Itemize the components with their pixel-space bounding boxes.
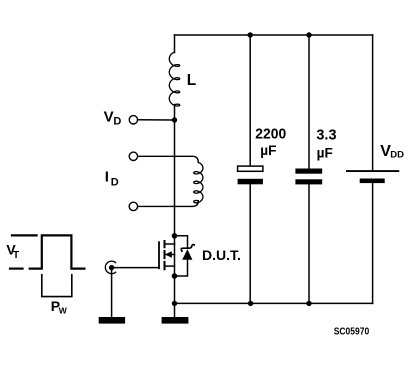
svg-text:V: V <box>104 109 114 126</box>
node bottom rail junction (C2) <box>306 301 311 306</box>
terminal V_D <box>129 116 137 124</box>
wire battery top <box>372 35 374 171</box>
wire: pulse outline <box>29 235 86 268</box>
label V_DD <box>380 143 404 160</box>
svg-text:D: D <box>113 116 121 128</box>
label V_D <box>104 109 122 128</box>
wire bottom rail <box>175 302 373 304</box>
wire top rail <box>175 34 373 36</box>
battery positive plate (long thin) <box>347 170 398 172</box>
wire connector to ground <box>111 270 113 317</box>
node drain junction <box>172 233 178 239</box>
svg-text:D: D <box>111 176 119 188</box>
wire battery bottom <box>372 183 374 303</box>
label I_D <box>105 168 119 188</box>
current probe coil (I_D sense) <box>138 156 203 206</box>
inductor L <box>169 35 179 121</box>
node top rail junction (C2) <box>306 32 311 37</box>
battery negative plate (short thick) <box>360 179 385 184</box>
svg-text:3.3: 3.3 <box>316 128 336 144</box>
wire: top level reference line <box>11 234 38 236</box>
svg-text:DD: DD <box>390 150 404 161</box>
connector (pulse input) <box>105 261 115 274</box>
ground (source) <box>162 317 189 324</box>
svg-text:µF: µF <box>317 144 334 160</box>
C1 top plate (hollow) <box>238 166 263 171</box>
terminal I_D top <box>129 152 137 160</box>
wire source (vertical) <box>174 236 176 317</box>
wire gate lead <box>114 267 159 269</box>
C2 bottom plate <box>295 179 322 184</box>
C2 top plate <box>295 169 322 174</box>
node bottom rail junction (C1) <box>248 301 253 306</box>
diode (body diode of D.U.T.) <box>175 236 195 276</box>
terminal I_D bottom <box>129 202 137 210</box>
svg-text:D.U.T.: D.U.T. <box>202 248 241 263</box>
pulse waveform V_T <box>9 235 86 268</box>
channel segment bottom <box>164 262 166 269</box>
wire C1 bottom <box>249 184 251 303</box>
svg-text:T: T <box>13 250 19 261</box>
source connection stub <box>165 265 175 267</box>
svg-text:2200: 2200 <box>255 127 286 143</box>
channel segment top <box>164 241 166 247</box>
svg-text:SC05970: SC05970 <box>334 325 370 337</box>
capacitor C1 2200uF <box>238 35 263 303</box>
gate plate <box>158 242 160 268</box>
node source-diode junction <box>172 273 178 279</box>
wire: low level dash <box>9 268 24 270</box>
wire C1 top <box>249 35 251 166</box>
channel segment middle <box>164 251 166 258</box>
ground (gate drive) <box>99 317 125 324</box>
drain connection stub <box>165 243 175 245</box>
label P_W <box>51 298 68 315</box>
svg-text:I: I <box>105 168 109 185</box>
svg-text:L: L <box>187 72 196 89</box>
node bottom rail left junction <box>172 301 177 306</box>
C1 bottom plate <box>238 179 263 185</box>
svg-text:W: W <box>59 305 68 315</box>
wire drain (main vertical) <box>174 120 176 236</box>
label V_T <box>6 242 19 261</box>
node V_D junction <box>172 117 177 122</box>
node top rail junction (C1) <box>248 32 253 37</box>
svg-text:µF: µF <box>260 142 277 158</box>
P_W width bracket <box>42 275 72 297</box>
cathode bar <box>181 245 194 252</box>
anode triangle <box>182 249 192 259</box>
wire C2 top <box>308 35 310 169</box>
substrate arrow <box>166 254 175 256</box>
capacitor C2 3.3uF <box>295 35 322 303</box>
wire V_D terminal to node <box>138 119 172 121</box>
transistor Q1 (D.U.T. MOSFET) <box>159 241 175 269</box>
wire C2 bottom <box>308 184 310 303</box>
battery V_DD <box>347 35 398 303</box>
